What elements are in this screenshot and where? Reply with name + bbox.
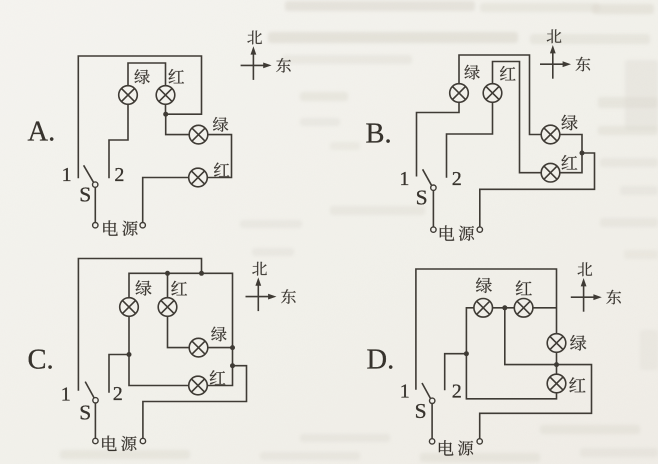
junction node b (C) <box>127 352 132 357</box>
svg-text:A.: A. <box>28 117 56 148</box>
battery terminal left (B) <box>431 227 436 232</box>
wire: node n down and right to L4 bottom (D) <box>466 354 556 399</box>
junction node (A) <box>163 112 168 117</box>
label 绿 for L3 (D) <box>570 335 586 351</box>
svg-text:S: S <box>415 399 427 423</box>
battery terminal right (D) <box>477 439 482 444</box>
lamp 绿 L3 (D) <box>547 334 566 353</box>
lamp 红 L4 (C) <box>189 376 208 395</box>
compass north arrow <box>581 278 587 312</box>
label 红 for L2 (B) <box>500 66 516 80</box>
wire: contact-1 riser, top bus and right drop to junction (A) <box>78 56 201 178</box>
wire: L3 bottom to L4 top (D) <box>556 352 558 375</box>
lamp 红 L2 (A) <box>156 86 175 105</box>
wire: L2 bottom stem to junction (A) <box>165 104 167 114</box>
wire: L3 right to node a (C) <box>208 347 233 349</box>
label 电源 power supply (C) <box>102 436 136 451</box>
switch S blade (A) <box>84 165 94 182</box>
label 绿 for L3 (A) <box>213 117 228 132</box>
wire: lamp row L1-L2 with taps (D) <box>466 308 556 354</box>
wire: junction down to lamp L3 (A) <box>166 114 190 134</box>
svg-text:B.: B. <box>366 119 392 150</box>
battery terminal right (A) <box>140 223 145 228</box>
compass east arrow <box>540 61 571 67</box>
wire: L3 right, down to lamp L4 (A) <box>207 135 231 178</box>
wire: pivot to battery - terminal (D) <box>431 404 433 439</box>
lamp 红 L4 (A) <box>189 168 208 187</box>
svg-text:D.: D. <box>367 345 395 376</box>
switch S label (D) <box>415 399 427 423</box>
switch S pivot (C) <box>93 398 98 403</box>
junction node n (D) <box>464 351 469 356</box>
svg-text:2: 2 <box>113 383 123 405</box>
label 北 (north) <box>247 31 262 45</box>
switch S blade (C) <box>85 382 94 398</box>
label 绿 for L1 (C) <box>136 280 152 295</box>
label 北 (north) <box>547 29 562 43</box>
compass north arrow <box>550 45 556 79</box>
switch S pivot (A) <box>93 182 98 187</box>
switch S pivot (B) <box>431 185 436 190</box>
switch contact 1 label (A) <box>62 164 72 186</box>
wire: L2 top stem (C) <box>167 273 169 298</box>
label 电源 power supply (B) <box>440 225 474 240</box>
junction node m (D) <box>554 362 559 367</box>
switch contact 2 label (B) <box>452 168 462 190</box>
label 东 (east) <box>276 58 291 73</box>
label 红 for L2 (D) <box>516 280 532 295</box>
label 绿 for L3 (C) <box>211 327 226 342</box>
wire: node b down to lamp L4 (C) <box>129 355 189 386</box>
svg-text:2: 2 <box>452 381 462 403</box>
wire: node n to contact 2 (D) <box>445 354 467 391</box>
wire: node b to contact 2 (C) <box>109 355 129 393</box>
svg-text:1: 1 <box>61 383 71 405</box>
junction node on bracket at L2 stem (C) <box>165 271 170 276</box>
label 东 (east) <box>576 57 591 72</box>
wire: lamp L2 top stem, inner bracket, drop to lamp L4 (B) <box>493 62 542 173</box>
switch S blade (D) <box>422 383 431 399</box>
wire: pivot to battery - terminal (B) <box>432 190 434 227</box>
battery terminal left (A) <box>93 223 98 228</box>
option label A. <box>28 117 56 148</box>
switch S pivot (D) <box>430 398 435 403</box>
label 绿 for L3 (B) <box>562 115 578 131</box>
lamp 绿 L3 (A) <box>189 125 208 144</box>
wire: node m to battery + terminal (D) <box>480 365 592 439</box>
lamp 绿 L1 (A) <box>119 86 138 105</box>
label 红 for L2 (C) <box>171 281 187 296</box>
compass east arrow <box>241 63 272 69</box>
svg-text:C.: C. <box>28 345 54 376</box>
lamp 红 L4 (B) <box>541 163 560 182</box>
svg-text:S: S <box>79 400 91 424</box>
wire: mid junction down and right to node m (D) <box>505 308 557 365</box>
compass north arrow <box>255 277 261 311</box>
battery terminal right (B) <box>477 227 482 232</box>
wire: L1 bottom to contact 1 (B) <box>417 102 460 177</box>
lamp 绿 L3 (C) <box>189 338 208 357</box>
battery terminal left (D) <box>429 439 434 444</box>
option label B. <box>366 119 392 150</box>
wire: L1 bottom stem to node b (C) <box>128 316 130 355</box>
label 绿 for L1 (B) <box>464 65 479 80</box>
wire: bracket and right bus down to node a (C) <box>129 273 233 347</box>
svg-text:S: S <box>79 183 91 207</box>
switch contact 2 label (A) <box>114 164 124 186</box>
wire: lamp L1 top stem, top bus, right drop to lamp L3 (B) <box>459 55 542 135</box>
wire: pivot to battery - terminal (C) <box>94 403 96 438</box>
switch contact 1 label (D) <box>400 381 410 403</box>
wire: contact-1 riser, top bus, drop to bracket (C) <box>78 259 201 391</box>
label 电源 power supply (A) <box>103 220 137 235</box>
junction node c (C) <box>230 363 235 368</box>
svg-text:1: 1 <box>399 168 409 190</box>
wire: node c to battery + terminal (C) <box>143 366 247 439</box>
switch contact 1 label (C) <box>61 383 71 405</box>
wire: L1 bottom to contact 2 (A) <box>109 104 128 178</box>
wire: L3 right to junction (B) <box>560 135 583 154</box>
lamp 绿 L1 (D) <box>474 299 493 318</box>
wire: contact-1 riser, top bus, right drop to lamp L3 (D) <box>416 269 557 390</box>
label 红 for L4 (A) <box>214 163 229 177</box>
junction node a (C) <box>230 345 235 350</box>
svg-text:2: 2 <box>114 164 124 186</box>
label 北 (north) <box>252 262 267 276</box>
label 红 for L4 (D) <box>569 377 585 392</box>
label 东 (east) <box>606 290 621 305</box>
label 电源 power supply (D) <box>439 440 473 455</box>
lamp 红 L2 (B) <box>483 84 502 103</box>
compass north arrow <box>251 46 257 80</box>
switch contact 2 label (C) <box>113 383 123 405</box>
switch contact 1 label (B) <box>399 168 409 190</box>
wire: pivot to battery - terminal (A) <box>94 187 96 222</box>
junction node between L1 and L2 (D) <box>502 305 507 310</box>
switch contact 2 label (D) <box>452 381 462 403</box>
lamp 绿 L3 (B) <box>541 125 560 144</box>
compass east arrow <box>571 294 602 300</box>
switch S blade (B) <box>423 169 432 185</box>
label 绿 for L1 (A) <box>134 69 149 84</box>
option label C. <box>28 345 54 376</box>
switch S label (A) <box>79 183 91 207</box>
label 绿 for L1 (D) <box>476 278 492 293</box>
label 红 for L4 (C) <box>210 370 226 384</box>
svg-text:1: 1 <box>62 164 72 186</box>
switch S label (C) <box>79 400 91 424</box>
wire: L2 bottom to lamp L3 (C) <box>168 316 190 348</box>
svg-text:S: S <box>416 186 428 210</box>
wire: L4 right up to junction (B) <box>560 153 582 173</box>
wire: L2 bottom to contact 2 (B) <box>447 102 493 178</box>
switch S label (B) <box>416 186 428 210</box>
battery terminal right (C) <box>140 438 145 443</box>
option label D. <box>367 345 395 376</box>
lamp 绿 L1 (B) <box>450 84 469 103</box>
svg-text:1: 1 <box>400 381 410 403</box>
compass east arrow <box>246 294 277 300</box>
svg-text:2: 2 <box>452 168 462 190</box>
label 红 for L2 (A) <box>168 69 184 83</box>
wire: parallel bracket over lamps (A) <box>128 63 166 86</box>
battery terminal left (C) <box>93 438 98 443</box>
label 北 (north) <box>578 262 593 276</box>
wire: junction to battery + terminal (B) <box>480 153 595 227</box>
junction node bracket/top-bus (C) <box>199 271 204 276</box>
lamp 绿 L1 (C) <box>120 298 139 317</box>
label 东 (east) <box>281 289 296 304</box>
junction node (B) <box>580 151 585 156</box>
lamp 红 L2 (C) <box>158 298 177 317</box>
lamp 红 L4 (D) <box>547 374 566 393</box>
label 红 for L4 (B) <box>561 155 577 170</box>
wire: L4 left down to battery + terminal (A) <box>143 178 189 223</box>
lamp 红 L2 (D) <box>514 299 533 318</box>
wire: node a down to L4 right (C) <box>207 348 232 386</box>
